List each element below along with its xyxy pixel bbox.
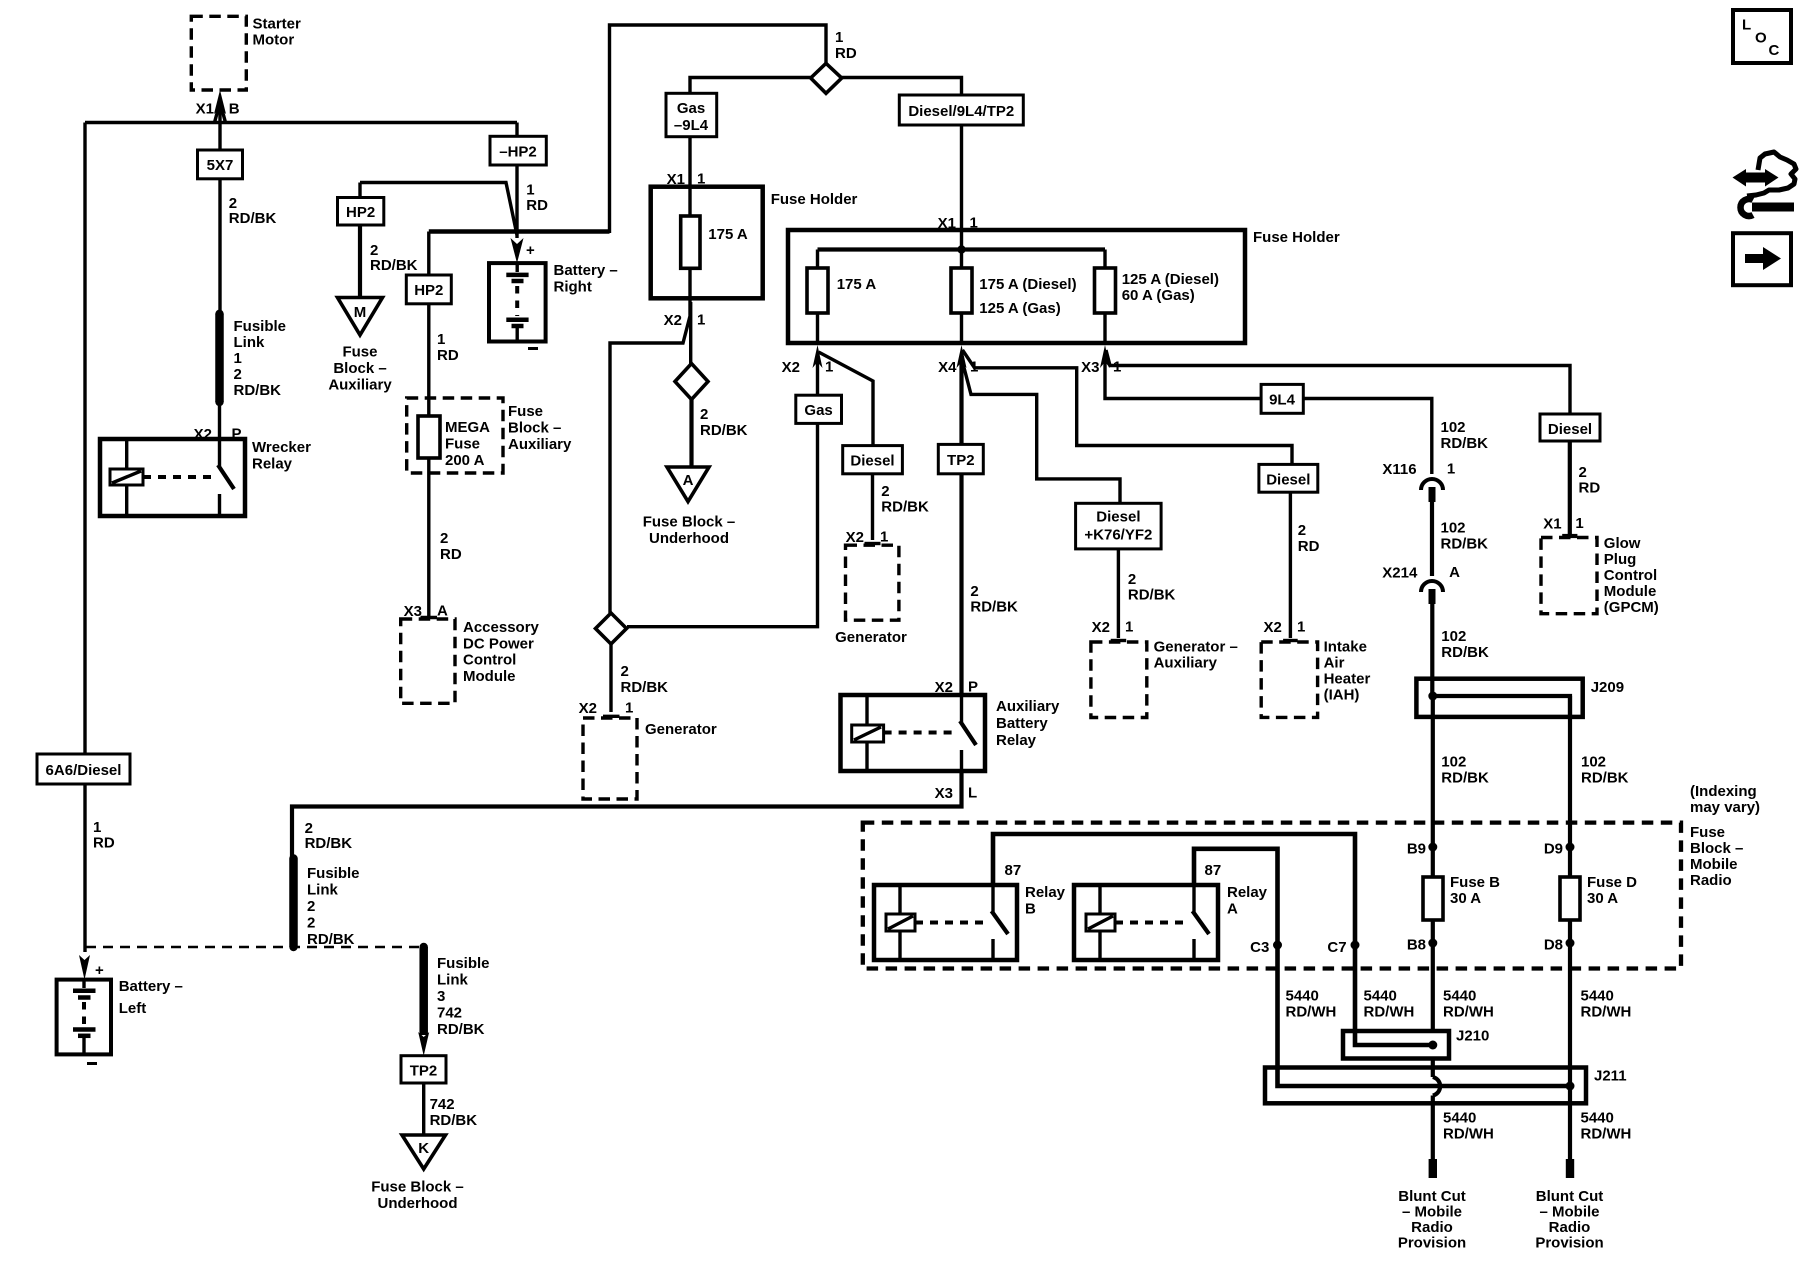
svg-text:102: 102 (1441, 520, 1466, 537)
svg-text:X2: X2 (1092, 619, 1110, 636)
svg-text:D9: D9 (1544, 841, 1563, 858)
svg-text:RD/BK: RD/BK (970, 599, 1018, 616)
svg-text:RD/WH: RD/WH (1581, 1126, 1632, 1143)
svg-text:1: 1 (1575, 515, 1583, 532)
svg-text:Fuse Holder: Fuse Holder (771, 191, 858, 208)
svg-text:1: 1 (970, 215, 978, 232)
svg-text:Fuse: Fuse (508, 403, 543, 420)
svg-text:1: 1 (1125, 619, 1133, 636)
svg-text:Diesel: Diesel (1548, 421, 1592, 438)
svg-text:Fuse: Fuse (445, 436, 480, 453)
svg-text:X214: X214 (1382, 565, 1418, 582)
svg-text:Gas: Gas (677, 100, 705, 117)
svg-text:RD/WH: RD/WH (1581, 1004, 1632, 1021)
svg-text:– Mobile: – Mobile (1402, 1204, 1462, 1221)
svg-text:102: 102 (1441, 628, 1466, 645)
svg-text:Right: Right (554, 279, 592, 296)
svg-text:5440: 5440 (1443, 1110, 1476, 1127)
svg-text:B: B (229, 101, 240, 118)
svg-text:RD/BK: RD/BK (881, 499, 929, 516)
svg-text:X4: X4 (938, 359, 957, 376)
svg-text:60 A (Gas): 60 A (Gas) (1122, 287, 1195, 304)
svg-text:Fuse Block –: Fuse Block – (371, 1179, 464, 1196)
svg-text:3: 3 (437, 988, 445, 1005)
svg-text:2: 2 (621, 663, 629, 680)
svg-text:Link: Link (307, 882, 338, 899)
svg-text:1: 1 (697, 312, 705, 329)
svg-text:X3: X3 (935, 785, 953, 802)
svg-text:– Mobile: – Mobile (1539, 1204, 1599, 1221)
svg-text:1: 1 (835, 29, 843, 46)
svg-text:Battery –: Battery – (554, 262, 618, 279)
svg-text:1: 1 (437, 331, 445, 348)
svg-text:L: L (1742, 17, 1751, 34)
svg-text:Underhood: Underhood (649, 530, 729, 547)
svg-text:C: C (1769, 42, 1780, 59)
svg-text:RD/BK: RD/BK (1441, 770, 1489, 787)
svg-text:742: 742 (430, 1096, 455, 1113)
svg-text:Motor: Motor (253, 32, 295, 49)
svg-text:Fuse B: Fuse B (1450, 874, 1500, 891)
svg-text:X1: X1 (938, 215, 956, 232)
svg-text:Battery: Battery (996, 715, 1048, 732)
svg-text:Block –: Block – (333, 360, 386, 377)
svg-text:Module: Module (463, 668, 516, 685)
svg-text:Underhood: Underhood (378, 1195, 458, 1212)
svg-text:HP2: HP2 (346, 204, 375, 221)
svg-text:MEGA: MEGA (445, 419, 490, 436)
svg-text:Air: Air (1324, 655, 1345, 672)
svg-text:+K76/YF2: +K76/YF2 (1084, 527, 1152, 544)
svg-text:175 A: 175 A (837, 276, 877, 293)
svg-text:200 A: 200 A (445, 452, 485, 469)
svg-text:2: 2 (1128, 571, 1136, 588)
svg-text:Relay: Relay (996, 732, 1037, 749)
svg-text:Fusible: Fusible (437, 955, 490, 972)
svg-text:RD/BK: RD/BK (700, 422, 748, 439)
svg-text:(Indexing: (Indexing (1690, 783, 1757, 800)
svg-text:2: 2 (307, 915, 315, 932)
svg-text:102: 102 (1441, 419, 1466, 436)
svg-text:A: A (683, 472, 694, 489)
svg-text:X2: X2 (664, 312, 682, 329)
svg-text:1: 1 (1447, 461, 1455, 478)
svg-text:RD/BK: RD/BK (1128, 587, 1176, 604)
svg-text:Radio: Radio (1411, 1219, 1453, 1236)
svg-text:(GPCM): (GPCM) (1604, 599, 1659, 616)
svg-text:RD/BK: RD/BK (437, 1021, 485, 1038)
svg-text:M: M (354, 304, 367, 321)
svg-text:X116: X116 (1382, 461, 1416, 478)
svg-text:Radio: Radio (1690, 872, 1732, 889)
svg-text:87: 87 (1005, 862, 1022, 879)
svg-text:B: B (1025, 901, 1036, 918)
svg-text:O: O (1755, 30, 1767, 47)
svg-text:Heater: Heater (1324, 671, 1371, 688)
svg-text:(IAH): (IAH) (1324, 687, 1360, 704)
svg-text:X2: X2 (782, 359, 800, 376)
svg-text:1: 1 (625, 700, 633, 717)
svg-text:Generator: Generator (645, 721, 717, 738)
svg-text:Link: Link (234, 334, 265, 351)
svg-text:Generator: Generator (835, 629, 907, 646)
svg-text:2: 2 (1579, 464, 1587, 481)
svg-text:HP2: HP2 (414, 282, 443, 299)
svg-text:2: 2 (700, 406, 708, 423)
svg-text:RD/BK: RD/BK (1441, 536, 1489, 553)
svg-text:RD/BK: RD/BK (370, 257, 418, 274)
svg-text:Radio: Radio (1549, 1219, 1591, 1236)
svg-text:RD: RD (1298, 538, 1320, 555)
svg-text:+: + (95, 962, 104, 979)
svg-text:C3: C3 (1250, 939, 1269, 956)
svg-text:RD: RD (93, 835, 115, 852)
svg-text:–HP2: –HP2 (499, 144, 537, 161)
svg-text:Starter: Starter (253, 16, 302, 33)
svg-text:9L4: 9L4 (1269, 392, 1296, 409)
svg-text:+: + (526, 242, 535, 259)
svg-text:J211: J211 (1594, 1068, 1627, 1085)
svg-text:–9L4: –9L4 (674, 117, 709, 134)
svg-text:Generator –: Generator – (1154, 639, 1238, 656)
svg-text:Intake: Intake (1324, 639, 1367, 656)
svg-text:RD/BK: RD/BK (1441, 435, 1489, 452)
svg-text:1: 1 (93, 819, 101, 836)
svg-text:5440: 5440 (1286, 988, 1319, 1005)
svg-text:175 A (Diesel): 175 A (Diesel) (979, 276, 1076, 293)
svg-text:may vary): may vary) (1690, 799, 1760, 816)
svg-text:Fusible: Fusible (234, 318, 287, 335)
svg-text:RD: RD (835, 45, 857, 62)
svg-text:1: 1 (234, 350, 242, 367)
svg-text:Glow: Glow (1604, 535, 1641, 552)
svg-text:30 A: 30 A (1587, 890, 1618, 907)
svg-text:Fuse Holder: Fuse Holder (1253, 229, 1340, 246)
svg-text:125 A (Diesel): 125 A (Diesel) (1122, 271, 1219, 288)
svg-text:RD/BK: RD/BK (1441, 644, 1489, 661)
svg-text:Left: Left (119, 1000, 147, 1017)
svg-text:L: L (968, 785, 977, 802)
svg-text:B9: B9 (1407, 841, 1426, 858)
svg-text:2: 2 (440, 530, 448, 547)
svg-text:Battery –: Battery – (119, 978, 183, 995)
svg-text:Mobile: Mobile (1690, 856, 1738, 873)
svg-text:175 A: 175 A (708, 226, 748, 243)
svg-text:Fuse D: Fuse D (1587, 874, 1637, 891)
svg-text:RD: RD (526, 197, 548, 214)
svg-text:2: 2 (970, 583, 978, 600)
svg-text:742: 742 (437, 1005, 462, 1022)
svg-text:TP2: TP2 (410, 1063, 438, 1080)
svg-text:Blunt Cut: Blunt Cut (1536, 1188, 1603, 1205)
svg-text:Plug: Plug (1604, 551, 1637, 568)
svg-text:1: 1 (526, 182, 534, 199)
svg-text:5440: 5440 (1581, 1110, 1614, 1127)
svg-text:2: 2 (1298, 522, 1306, 539)
svg-text:Auxiliary: Auxiliary (996, 698, 1060, 715)
svg-text:DC Power: DC Power (463, 636, 534, 653)
svg-text:6A6/Diesel: 6A6/Diesel (46, 762, 122, 779)
svg-text:RD/BK: RD/BK (307, 931, 355, 948)
svg-text:Fuse: Fuse (1690, 824, 1725, 841)
svg-text:B8: B8 (1407, 937, 1426, 954)
svg-text:RD: RD (1579, 480, 1601, 497)
svg-text:X3: X3 (1081, 359, 1099, 376)
svg-text:J210: J210 (1456, 1028, 1489, 1045)
svg-text:Accessory: Accessory (463, 619, 540, 636)
svg-text:Control: Control (463, 652, 516, 669)
svg-text:A: A (1227, 901, 1238, 918)
svg-text:2: 2 (234, 366, 242, 383)
svg-text:TP2: TP2 (947, 452, 975, 469)
svg-text:Relay: Relay (1227, 884, 1268, 901)
svg-text:A: A (1449, 564, 1460, 581)
svg-text:X2: X2 (846, 529, 864, 546)
svg-text:RD/BK: RD/BK (621, 679, 669, 696)
svg-text:5440: 5440 (1364, 988, 1397, 1005)
svg-text:5X7: 5X7 (207, 157, 234, 174)
svg-text:Auxiliary: Auxiliary (328, 377, 392, 394)
svg-text:D8: D8 (1544, 937, 1563, 954)
svg-text:5440: 5440 (1581, 988, 1614, 1005)
svg-text:1: 1 (880, 529, 888, 546)
svg-text:Link: Link (437, 972, 468, 989)
svg-text:Wrecker: Wrecker (252, 439, 311, 456)
svg-text:Fuse Block –: Fuse Block – (643, 514, 736, 531)
svg-text:X2: X2 (1263, 619, 1281, 636)
svg-text:RD/WH: RD/WH (1286, 1004, 1337, 1021)
svg-text:102: 102 (1581, 754, 1606, 771)
svg-text:X2: X2 (579, 700, 597, 717)
svg-text:Fuse: Fuse (342, 344, 377, 361)
svg-text:RD/BK: RD/BK (229, 210, 277, 227)
svg-text:RD/BK: RD/BK (430, 1112, 478, 1129)
svg-text:102: 102 (1441, 754, 1466, 771)
svg-text:Auxiliary: Auxiliary (1154, 655, 1218, 672)
svg-text:Block –: Block – (508, 420, 561, 437)
svg-text:Provision: Provision (1398, 1235, 1466, 1252)
svg-text:J209: J209 (1591, 679, 1624, 696)
svg-text:87: 87 (1205, 862, 1222, 879)
svg-text:Diesel: Diesel (1266, 472, 1310, 489)
svg-text:K: K (418, 1140, 429, 1157)
svg-text:RD/BK: RD/BK (1581, 770, 1629, 787)
svg-text:Control: Control (1604, 567, 1657, 584)
svg-text:Blunt Cut: Blunt Cut (1398, 1188, 1465, 1205)
svg-text:2: 2 (307, 898, 315, 915)
svg-text:2: 2 (881, 483, 889, 500)
svg-text:5440: 5440 (1443, 988, 1476, 1005)
svg-text:Auxiliary: Auxiliary (508, 436, 572, 453)
svg-text:Diesel: Diesel (1096, 509, 1140, 526)
svg-text:RD/WH: RD/WH (1443, 1004, 1494, 1021)
svg-text:1: 1 (1297, 619, 1305, 636)
svg-text:Fusible: Fusible (307, 865, 360, 882)
svg-text:RD/WH: RD/WH (1364, 1004, 1415, 1021)
svg-text:A: A (437, 603, 448, 620)
svg-text:Provision: Provision (1535, 1235, 1603, 1252)
svg-text:Relay: Relay (1025, 884, 1066, 901)
svg-text:Relay: Relay (252, 456, 293, 473)
svg-text:125 A (Gas): 125 A (Gas) (979, 300, 1060, 317)
svg-text:Diesel: Diesel (850, 453, 894, 470)
svg-text:Diesel/9L4/TP2: Diesel/9L4/TP2 (908, 103, 1014, 120)
svg-text:RD/BK: RD/BK (234, 382, 282, 399)
svg-text:RD/BK: RD/BK (305, 835, 353, 852)
svg-text:Module: Module (1604, 583, 1657, 600)
svg-text:RD/WH: RD/WH (1443, 1126, 1494, 1143)
svg-text:C7: C7 (1327, 939, 1346, 956)
svg-text:30 A: 30 A (1450, 890, 1481, 907)
svg-text:RD: RD (437, 347, 459, 364)
svg-text:X1: X1 (1543, 516, 1561, 533)
svg-text:RD: RD (440, 546, 462, 563)
svg-text:X1: X1 (196, 101, 214, 118)
svg-text:Gas: Gas (804, 402, 832, 419)
svg-text:Block –: Block – (1690, 840, 1743, 857)
